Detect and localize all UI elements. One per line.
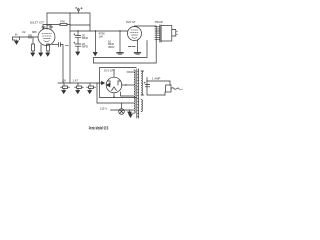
svg-text:.02: .02 (22, 30, 26, 34)
svg-text:47K: 47K (60, 20, 65, 24)
svg-text:B+: B+ (76, 6, 80, 10)
svg-text:1.47: 1.47 (73, 79, 79, 83)
svg-text:1 AMP: 1 AMP (152, 77, 161, 81)
svg-text:MFD: MFD (82, 36, 88, 40)
svg-text:1W: 1W (99, 35, 104, 39)
svg-text:.05: .05 (62, 79, 66, 83)
svg-text:68K: 68K (32, 30, 37, 34)
svg-text:MFD: MFD (82, 45, 88, 49)
svg-text:Penn Model 5C5: Penn Model 5C5 (89, 125, 109, 130)
svg-text:6SJ7 GT: 6SJ7 GT (30, 21, 44, 25)
svg-text:5Y3 GT: 5Y3 GT (104, 69, 114, 73)
svg-text:450V: 450V (108, 45, 115, 49)
svg-text:IN: IN (15, 34, 18, 36)
svg-text:115 V.: 115 V. (100, 106, 108, 110)
svg-text:6V6 GT: 6V6 GT (126, 20, 136, 24)
svg-text:TRIAD: TRIAD (155, 20, 163, 24)
